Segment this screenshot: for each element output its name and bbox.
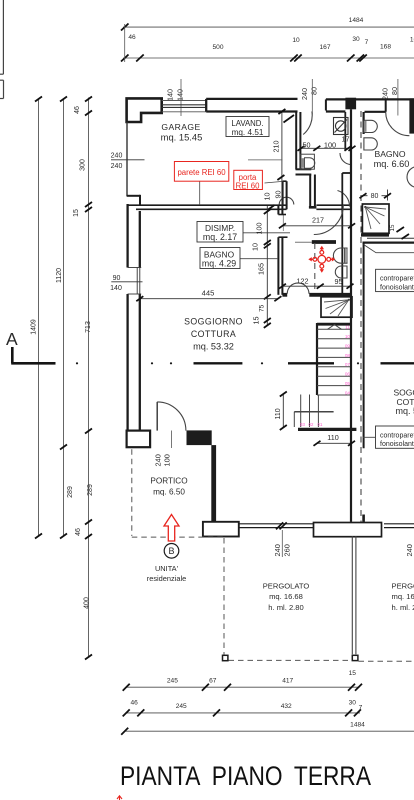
party wall T block top bbox=[345, 98, 356, 110]
svg-text:10: 10 bbox=[345, 334, 351, 339]
lavanderia left wall bbox=[296, 112, 317, 207]
tick at door bbox=[284, 115, 295, 123]
svg-text:100: 100 bbox=[324, 141, 336, 150]
svg-text:30: 30 bbox=[352, 36, 360, 43]
217 dim bbox=[282, 225, 351, 227]
svg-text:mq. 15.45: mq. 15.45 bbox=[161, 132, 203, 143]
svg-text:240: 240 bbox=[154, 454, 163, 466]
party wall right unit line bbox=[363, 112, 365, 134]
svg-text:h. ml. 2.80: h. ml. 2.80 bbox=[268, 603, 303, 612]
fan/light symbol red cross bbox=[308, 246, 335, 273]
svg-text:07: 07 bbox=[345, 362, 351, 367]
svg-text:fonoisolanti: fonoisolanti bbox=[380, 284, 414, 291]
entrance door leaf + arc bbox=[156, 402, 158, 431]
svg-text:245: 245 bbox=[176, 703, 187, 710]
122 / 95 dim bbox=[282, 285, 350, 287]
right unit top wall inner bbox=[365, 111, 386, 113]
garage door panel bbox=[162, 101, 207, 112]
svg-text:210: 210 bbox=[272, 141, 281, 153]
svg-text:REI 60: REI 60 bbox=[236, 181, 260, 190]
porta REI leader bbox=[265, 181, 283, 183]
svg-text:PERGOLATO: PERGOLATO bbox=[263, 582, 310, 591]
stairwell bbox=[298, 323, 356, 429]
bagno top wall bbox=[295, 241, 312, 243]
svg-text:240: 240 bbox=[300, 88, 309, 100]
445 dim bbox=[140, 298, 278, 300]
south window glazing bbox=[239, 524, 314, 528]
svg-text:15: 15 bbox=[389, 224, 396, 231]
svg-text:10: 10 bbox=[292, 37, 300, 44]
svg-text:400: 400 bbox=[84, 597, 91, 609]
svg-text:95: 95 bbox=[335, 277, 343, 286]
svg-text:mq. 2.17: mq. 2.17 bbox=[203, 232, 237, 242]
svg-text:fonoisolanti: fonoisolanti bbox=[380, 441, 414, 448]
lavanderia door arc from garage bbox=[303, 111, 312, 134]
svg-text:260: 260 bbox=[283, 544, 292, 556]
pergolato party beam double line bbox=[352, 536, 356, 654]
svg-text:h. ml. 2: h. ml. 2 bbox=[392, 603, 414, 612]
svg-text:300: 300 bbox=[80, 159, 87, 171]
right unit bagno top wall line bbox=[363, 242, 414, 244]
svg-text:02: 02 bbox=[308, 422, 314, 427]
bagno door arc (semicircle) bbox=[287, 283, 309, 294]
red corner mark bottom left bbox=[117, 796, 122, 800]
svg-text:100: 100 bbox=[255, 223, 264, 235]
svg-text:10: 10 bbox=[263, 193, 272, 201]
svg-text:165: 165 bbox=[256, 263, 265, 275]
svg-text:80: 80 bbox=[371, 193, 379, 200]
svg-text:240: 240 bbox=[111, 163, 123, 170]
svg-text:46: 46 bbox=[75, 528, 82, 536]
right unit 80 dim bbox=[363, 190, 388, 201]
svg-text:90: 90 bbox=[113, 275, 121, 282]
svg-text:mq. 53.32: mq. 53.32 bbox=[193, 341, 234, 351]
svg-text:09: 09 bbox=[345, 344, 351, 349]
svg-text:168: 168 bbox=[380, 43, 391, 50]
svg-text:46: 46 bbox=[74, 106, 81, 114]
right unit south window bbox=[384, 524, 414, 528]
svg-text:289: 289 bbox=[67, 486, 74, 498]
svg-text:PIANTA PIANO TERRA: PIANTA PIANO TERRA bbox=[120, 761, 371, 791]
porta REI 60 box bbox=[234, 170, 263, 189]
svg-text:500: 500 bbox=[212, 44, 223, 51]
svg-text:50: 50 bbox=[303, 141, 311, 150]
party wall left line bbox=[350, 109, 352, 522]
garage corner L top-left bbox=[127, 98, 162, 122]
svg-text:15: 15 bbox=[349, 670, 357, 677]
chain 1409 bbox=[38, 100, 40, 537]
DISIMP box + leader bbox=[243, 232, 290, 234]
right unit lavabo circle bbox=[407, 167, 414, 188]
svg-text:432: 432 bbox=[281, 703, 292, 710]
svg-text:67: 67 bbox=[209, 677, 217, 684]
passage stub wall garage side bbox=[283, 181, 287, 209]
bagno bottom wall bbox=[282, 293, 287, 297]
B circle bbox=[164, 544, 179, 559]
svg-text:240: 240 bbox=[111, 153, 123, 160]
svg-text:140: 140 bbox=[110, 285, 122, 292]
bagno dashed partition bbox=[314, 243, 316, 294]
svg-text:140: 140 bbox=[176, 89, 185, 101]
svg-text:217: 217 bbox=[312, 216, 324, 225]
right unit entrance door arc bbox=[386, 112, 410, 136]
svg-text:7: 7 bbox=[365, 39, 369, 46]
svg-text:parete REI 60: parete REI 60 bbox=[177, 168, 226, 177]
contropareti box 1 bbox=[376, 269, 414, 291]
lavanderia right jog + lining wall bbox=[340, 153, 352, 165]
pergolato posts bbox=[223, 655, 228, 660]
svg-text:B: B bbox=[168, 546, 174, 556]
svg-text:01: 01 bbox=[317, 422, 323, 427]
svg-text:15: 15 bbox=[252, 317, 261, 325]
svg-text:1120: 1120 bbox=[56, 268, 63, 283]
110 winder vertical dim bbox=[282, 394, 284, 428]
svg-text:mq. 16.6: mq. 16.6 bbox=[392, 592, 414, 601]
svg-text:240: 240 bbox=[273, 544, 282, 556]
pink step numbers bbox=[300, 325, 351, 427]
entrance wall block bbox=[187, 430, 212, 445]
right pilaster block bbox=[314, 523, 382, 537]
lavanderia lavatoio fixture bbox=[300, 154, 315, 169]
svg-text:417: 417 bbox=[282, 677, 293, 684]
svg-text:A: A bbox=[6, 329, 18, 349]
svg-text:mq. 16.68: mq. 16.68 bbox=[269, 592, 303, 601]
top wall right section outer line bbox=[326, 98, 414, 100]
svg-text:245: 245 bbox=[167, 677, 178, 684]
entrance door labels bbox=[170, 431, 172, 449]
svg-text:15: 15 bbox=[73, 209, 80, 217]
svg-text:mq. 53.32: mq. 53.32 bbox=[396, 406, 414, 416]
svg-text:90: 90 bbox=[274, 191, 283, 199]
portico dashed boundary bbox=[132, 449, 414, 661]
svg-text:75: 75 bbox=[259, 304, 266, 312]
right unit door jamb block bbox=[409, 98, 414, 133]
svg-text:16: 16 bbox=[410, 37, 414, 44]
LAVAND box bbox=[226, 117, 269, 137]
svg-text:10: 10 bbox=[251, 243, 260, 251]
svg-text:240: 240 bbox=[405, 544, 414, 556]
svg-text:46: 46 bbox=[131, 700, 139, 707]
svg-text:08: 08 bbox=[345, 353, 351, 358]
svg-text:GARAGE: GARAGE bbox=[161, 122, 200, 132]
lavanderia bottom door arc to disimpegno bbox=[314, 205, 344, 235]
right unit shower bottom wall bbox=[361, 233, 389, 236]
leader diagonal + horizontal bbox=[364, 245, 414, 253]
right unit shower bbox=[362, 204, 389, 233]
svg-text:1484: 1484 bbox=[350, 721, 365, 728]
svg-text:contropareti: contropareti bbox=[380, 432, 414, 439]
svg-text:140: 140 bbox=[166, 89, 175, 101]
50/100/17 dim bbox=[301, 147, 353, 149]
svg-text:residenziale: residenziale bbox=[147, 574, 186, 583]
svg-text:04: 04 bbox=[345, 390, 351, 395]
garage bottom wall bbox=[127, 195, 140, 197]
210 / 90 chain bbox=[248, 112, 282, 207]
svg-text:1484: 1484 bbox=[349, 17, 364, 24]
contropareti box 2 + leader bbox=[376, 426, 414, 448]
svg-text:167: 167 bbox=[319, 44, 330, 51]
svg-text:mq. 4.51: mq. 4.51 bbox=[232, 128, 264, 137]
svg-text:mq. 4.29: mq. 4.29 bbox=[202, 259, 236, 269]
svg-text:PERGOLATO: PERGOLATO bbox=[392, 582, 414, 591]
svg-text:05: 05 bbox=[345, 381, 351, 386]
svg-text:110: 110 bbox=[327, 433, 338, 442]
svg-text:mq. 6.60: mq. 6.60 bbox=[374, 159, 410, 169]
dim line second top chain bbox=[123, 57, 414, 59]
right unit wc bbox=[364, 120, 377, 150]
svg-text:PORTICO: PORTICO bbox=[150, 476, 187, 485]
parete REI 60 box + leader bbox=[199, 181, 201, 205]
BAGNO box + leader bbox=[240, 258, 278, 260]
svg-text:1409: 1409 bbox=[31, 319, 38, 335]
svg-text:240: 240 bbox=[381, 88, 390, 100]
svg-text:UNITA': UNITA' bbox=[155, 564, 179, 573]
svg-text:7: 7 bbox=[359, 705, 363, 712]
svg-text:100: 100 bbox=[163, 454, 172, 466]
chain 1120/289 bbox=[63, 100, 65, 537]
svg-text:30: 30 bbox=[349, 699, 357, 706]
south window wall: left pilaster bbox=[203, 522, 239, 537]
svg-text:mq. 6.50: mq. 6.50 bbox=[153, 488, 185, 497]
svg-text:110: 110 bbox=[275, 408, 282, 419]
svg-text:17: 17 bbox=[342, 134, 350, 143]
B arrow red bbox=[164, 515, 179, 542]
door arcs garage wall (semicircles up) bbox=[279, 197, 294, 204]
party wall dashed centerline bbox=[360, 111, 362, 530]
dim line 1484 top bbox=[123, 26, 414, 28]
chain 46/300/15/713/289/46/400 bbox=[88, 98, 90, 658]
svg-text:122: 122 bbox=[297, 277, 309, 286]
svg-text:713: 713 bbox=[85, 321, 92, 333]
svg-text:BAGNO: BAGNO bbox=[374, 149, 405, 159]
svg-text:06: 06 bbox=[345, 372, 351, 377]
svg-text:80: 80 bbox=[310, 87, 319, 95]
svg-text:SOGGIORNO: SOGGIORNO bbox=[184, 317, 243, 327]
top wall outlined block garage-lavanderia bbox=[206, 99, 297, 112]
section line A-A bbox=[6, 329, 414, 365]
svg-text:03: 03 bbox=[300, 422, 306, 427]
washing machine bbox=[334, 118, 349, 135]
portico east wall bbox=[211, 445, 216, 522]
shower left unit bbox=[321, 297, 352, 317]
svg-text:contropareti: contropareti bbox=[380, 276, 414, 283]
100/10/165/75/15 chain bbox=[266, 206, 268, 326]
svg-text:COTTURA: COTTURA bbox=[191, 329, 236, 339]
disimpegno left wall bbox=[278, 206, 287, 295]
110 stair width dim bbox=[317, 442, 352, 444]
svg-text:289: 289 bbox=[87, 484, 94, 496]
left wall end cap bbox=[127, 431, 151, 448]
15 dim right bbox=[397, 227, 405, 232]
garage window bbox=[111, 159, 145, 161]
svg-text:11: 11 bbox=[345, 325, 350, 330]
left outer wall double line bbox=[127, 122, 140, 431]
svg-text:445: 445 bbox=[202, 288, 215, 297]
svg-text:46: 46 bbox=[128, 34, 136, 41]
soggiorno window left wall bbox=[111, 268, 142, 295]
bagno WC bbox=[333, 248, 347, 278]
